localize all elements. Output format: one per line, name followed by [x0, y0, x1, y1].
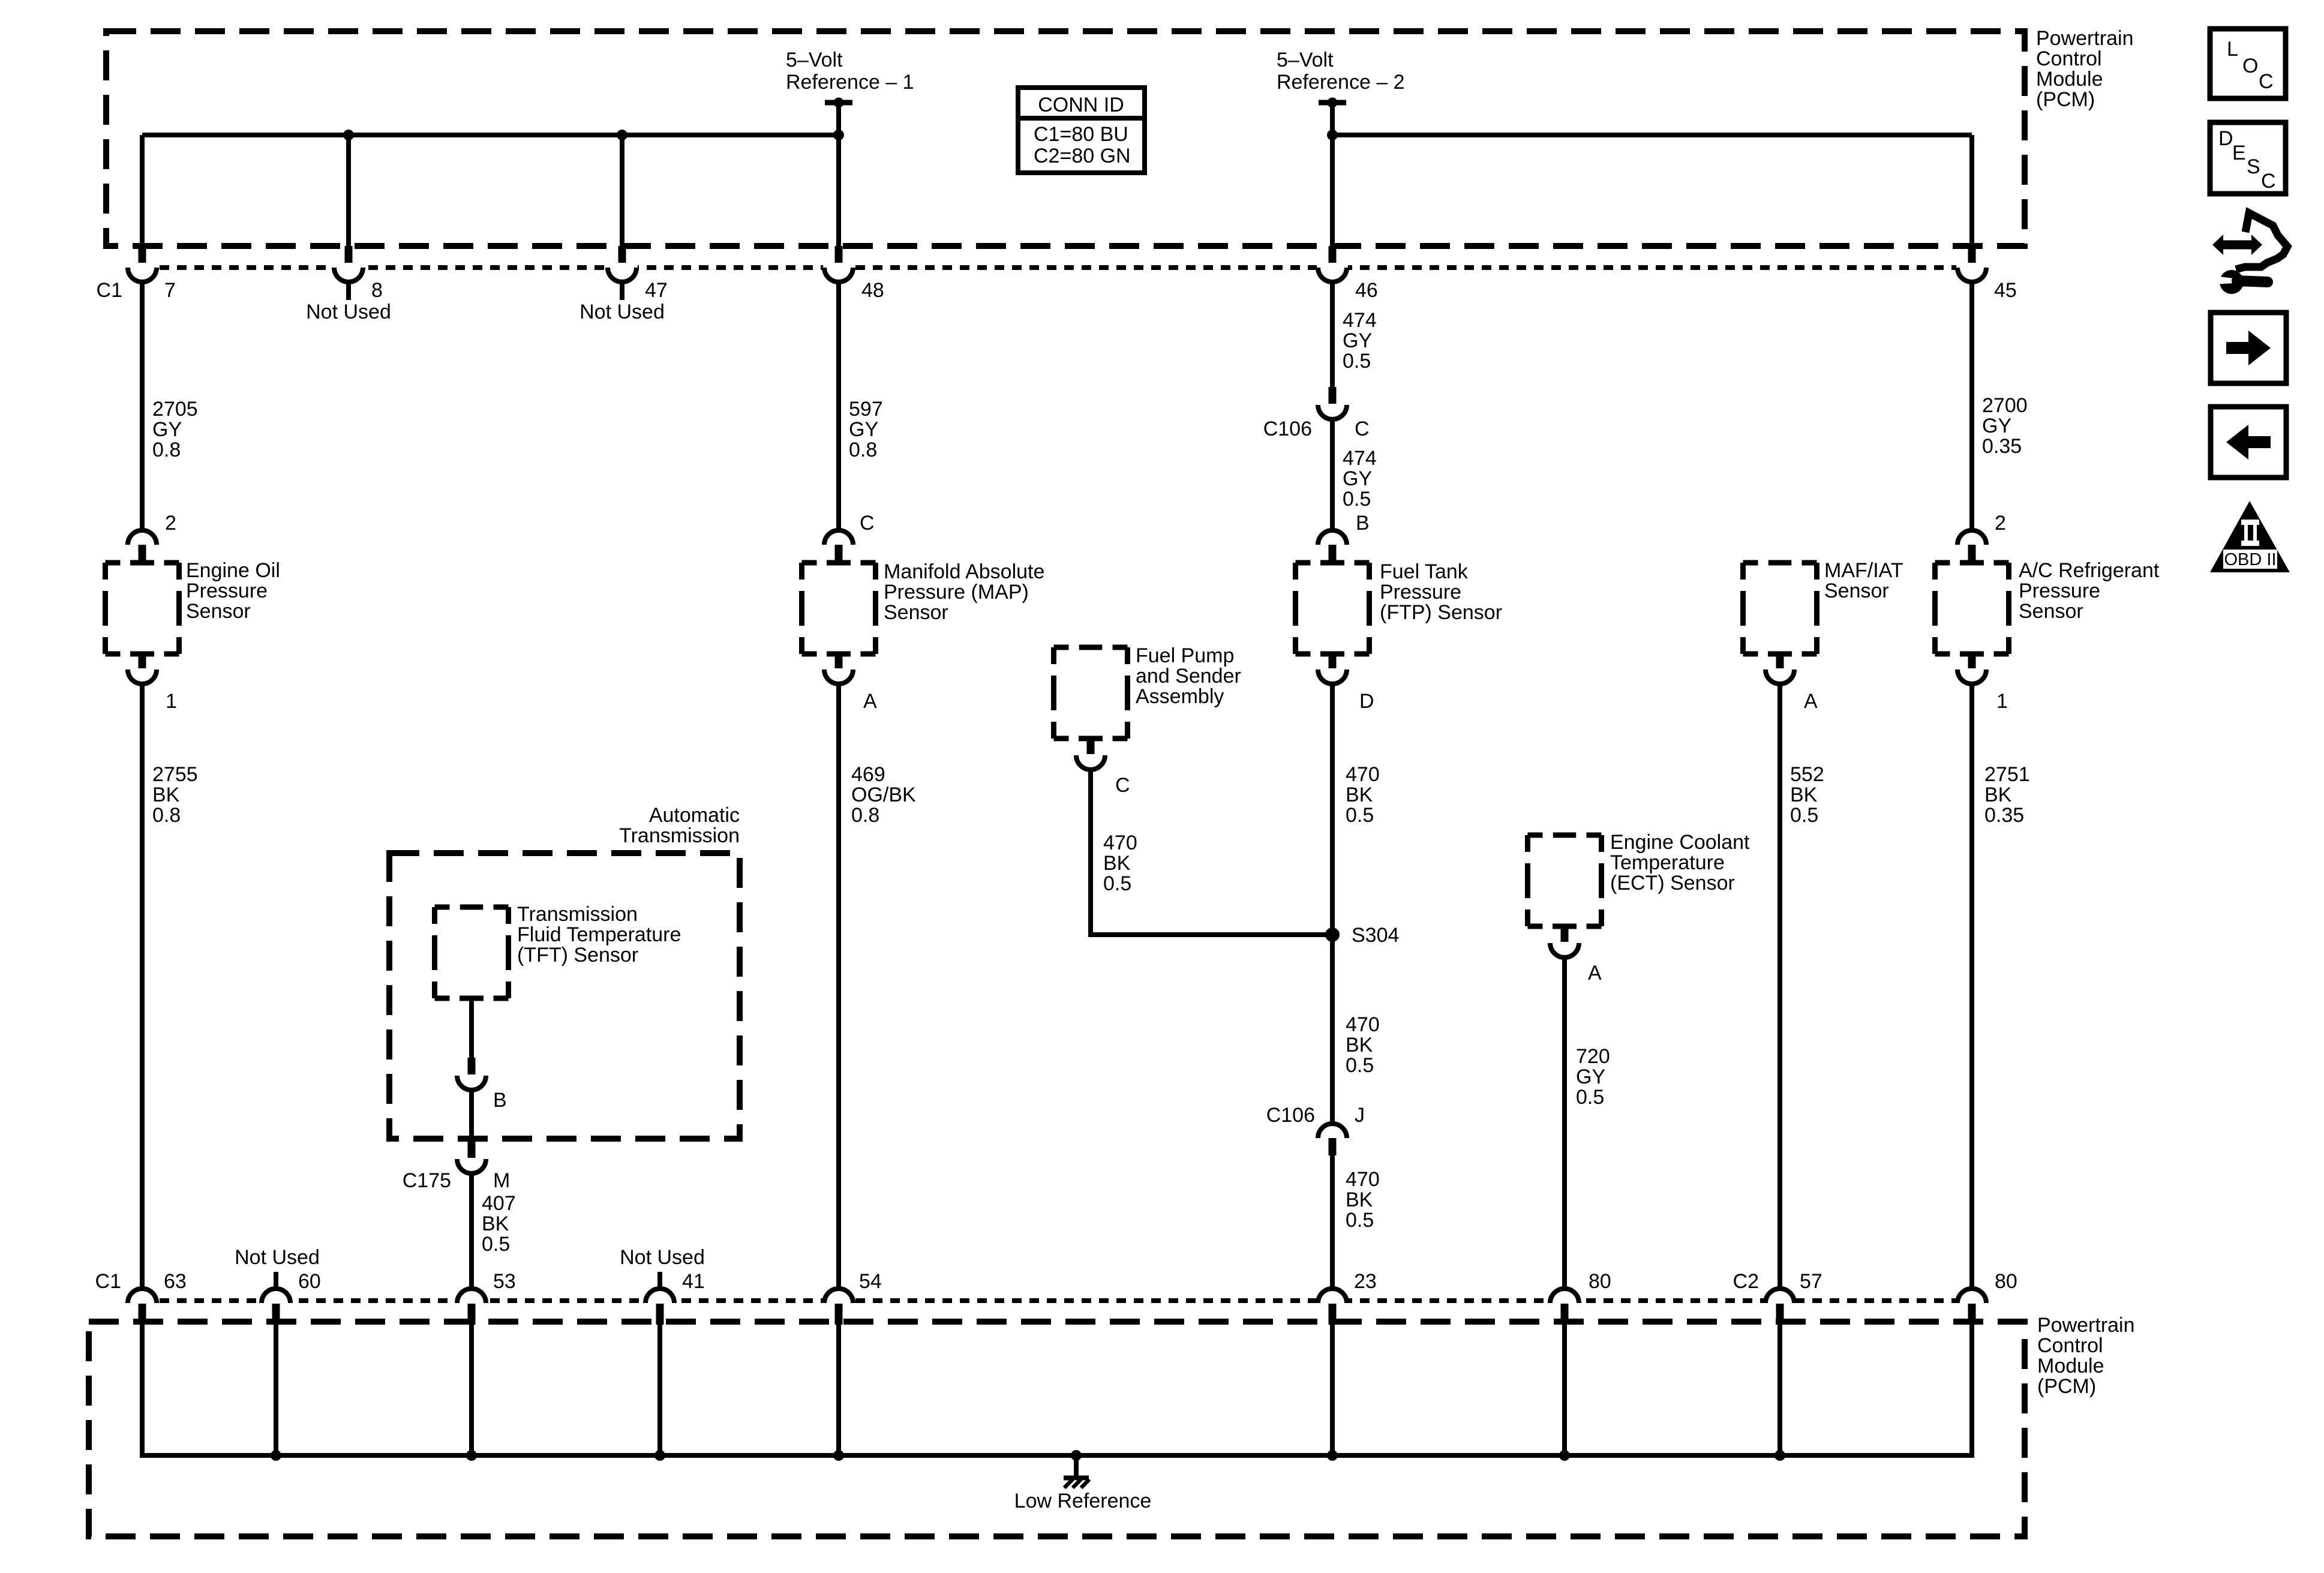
- connector C2 pin 45 (PCM): [1956, 246, 1987, 283]
- wire 470 BK 0.5 (C106 J to pin 23): [1330, 1155, 1335, 1289]
- svg-text:Control: Control: [2037, 1334, 2103, 1357]
- svg-text:0.5: 0.5: [1576, 1086, 1604, 1109]
- svg-text:7: 7: [164, 279, 176, 302]
- wire pin 47 stub (PCM internal): [620, 135, 624, 246]
- svg-text:Sensor: Sensor: [1824, 580, 1889, 602]
- svg-text:C: C: [2261, 170, 2276, 193]
- wire TFT B to C175: [469, 998, 474, 1141]
- svg-text:C106: C106: [1263, 418, 1312, 440]
- svg-text:Transmission: Transmission: [517, 903, 638, 926]
- svg-text:BK: BK: [1984, 784, 2012, 806]
- connector pin C Fuel Pump and Sender Assembly: [1075, 737, 1106, 771]
- connector pin A MAP Sensor: [823, 652, 854, 685]
- svg-text:23: 23: [1354, 1270, 1377, 1293]
- svg-text:0.8: 0.8: [152, 439, 181, 461]
- Fuel Tank Pressure (FTP) Sensor box: [1296, 563, 1370, 654]
- svg-text:2755: 2755: [152, 763, 198, 786]
- svg-text:48: 48: [861, 279, 884, 302]
- wire 469 OG/BK 0.8 (MAP A to pin 54): [836, 684, 841, 1289]
- svg-text:2: 2: [1995, 512, 2006, 535]
- svg-text:2705: 2705: [152, 398, 198, 421]
- svg-text:720: 720: [1576, 1045, 1610, 1068]
- connector pin B TFT Sensor: [456, 1058, 487, 1091]
- connector C1 pin 63 (PCM): [127, 1287, 158, 1325]
- svg-text:BK: BK: [1103, 852, 1131, 875]
- junction dot ground stub: [1071, 1450, 1082, 1461]
- wire 5V ref 1 to pin 48: [836, 103, 841, 246]
- svg-text:2: 2: [165, 512, 176, 535]
- ground (Low Reference chassis ground): [1064, 1478, 1089, 1488]
- label wire 552 BK 0.5: [1790, 763, 1824, 827]
- svg-text:BK: BK: [1346, 1188, 1373, 1211]
- svg-text:Temperature: Temperature: [1610, 851, 1725, 874]
- wire pin 8 stub (PCM internal): [346, 135, 351, 246]
- connector C1 pin 23 (PCM): [1317, 1287, 1348, 1325]
- svg-text:O: O: [2242, 55, 2258, 77]
- svg-text:(PCM): (PCM): [2037, 1375, 2096, 1398]
- svg-text:C175: C175: [403, 1169, 451, 1192]
- 5-Volt Reference-2 supply symbol: [1319, 98, 1346, 108]
- svg-text:GY: GY: [1982, 415, 2011, 437]
- svg-text:J: J: [1355, 1104, 1365, 1127]
- svg-text:CONN ID: CONN ID: [1038, 94, 1124, 116]
- label wire 720 GY 0.5: [1576, 1045, 1610, 1109]
- label 5-Volt Reference - 1: [786, 49, 914, 94]
- wire 5V ref 2 to pin 46: [1330, 103, 1335, 246]
- label wire 470 BK 0.5 fuel pump: [1103, 831, 1137, 895]
- svg-text:BK: BK: [1346, 784, 1373, 806]
- svg-text:BK: BK: [152, 784, 180, 806]
- wire 407 BK 0.5 (C175 M to pin 53): [469, 1173, 474, 1289]
- svg-text:470: 470: [1346, 763, 1380, 786]
- wire 720 GY 0.5 (ECT A to pin 80): [1562, 957, 1567, 1289]
- svg-text:470: 470: [1346, 1013, 1380, 1036]
- svg-text:469: 469: [851, 763, 885, 786]
- svg-text:Powertrain: Powertrain: [2036, 27, 2134, 50]
- connector pin A MAF/IAT Sensor: [1764, 652, 1795, 685]
- connector C2 pin 80 (PCM): [1956, 1287, 1987, 1325]
- svg-text:0.8: 0.8: [849, 439, 877, 461]
- label wire 407 BK 0.5: [482, 1192, 516, 1256]
- svg-text:54: 54: [859, 1270, 882, 1293]
- svg-text:A: A: [863, 690, 877, 713]
- svg-text:Module: Module: [2036, 68, 2103, 91]
- svg-text:0.8: 0.8: [851, 804, 879, 827]
- svg-text:(TFT) Sensor: (TFT) Sensor: [517, 944, 638, 966]
- svg-text:D: D: [2218, 127, 2233, 150]
- svg-text:OBD II: OBD II: [2224, 550, 2276, 569]
- Fuel Pump and Sender Assembly box: [1054, 647, 1128, 739]
- svg-text:Engine Oil: Engine Oil: [186, 559, 280, 582]
- Engine Oil Pressure Sensor box: [106, 563, 179, 654]
- svg-text:0.5: 0.5: [1790, 804, 1818, 827]
- connector pin C MAP Sensor: [823, 529, 854, 562]
- svg-text:D: D: [1359, 690, 1374, 713]
- svg-text:57: 57: [1800, 1270, 1822, 1293]
- svg-text:0.5: 0.5: [1343, 350, 1371, 373]
- svg-text:(ECT) Sensor: (ECT) Sensor: [1610, 872, 1735, 894]
- svg-text:0.5: 0.5: [482, 1233, 510, 1256]
- tab pin 2 A/C box: [1960, 560, 1984, 566]
- svg-text:0.35: 0.35: [1984, 804, 2024, 827]
- Transmission Fluid Temperature (TFT) Sensor box: [435, 907, 509, 998]
- tab pin 1 Engine Oil box: [130, 652, 154, 657]
- tab pin 1 A/C box: [1960, 652, 1984, 657]
- svg-text:0.5: 0.5: [1346, 804, 1374, 827]
- wire pin 47 not used stub: [620, 281, 624, 300]
- label wire 597 GY 0.8: [849, 398, 883, 461]
- svg-text:8: 8: [371, 279, 383, 302]
- PCM C1/C2 top connector row (dotted): [142, 265, 1972, 270]
- connector pin 2 Engine Oil Pressure Sensor: [127, 529, 158, 562]
- svg-text:GY: GY: [849, 418, 878, 441]
- connector pin 1 A/C Refrigerant Pressure Sensor: [1956, 652, 1987, 685]
- svg-text:C: C: [2259, 70, 2274, 93]
- label Automatic Transmission: [619, 804, 740, 847]
- svg-text:C2=80 GN: C2=80 GN: [1034, 145, 1131, 167]
- svg-text:46: 46: [1355, 279, 1378, 302]
- junction dot pin 80 low ref bus: [1559, 1450, 1570, 1461]
- OBD II legend icon: [2210, 501, 2290, 572]
- A/C Refrigerant Pressure Sensor box: [1935, 563, 2009, 654]
- svg-text:5–Volt: 5–Volt: [1277, 49, 1334, 71]
- forward arrow legend icon: [2211, 313, 2286, 383]
- Engine Coolant Temperature (ECT) Sensor box: [1528, 835, 1602, 926]
- tab pin B TFT box: [460, 996, 484, 1001]
- svg-text:474: 474: [1343, 447, 1377, 470]
- label wire 2705 GY 0.8: [152, 398, 198, 461]
- svg-text:Assembly: Assembly: [1136, 685, 1224, 708]
- svg-text:S304: S304: [1352, 924, 1399, 947]
- svg-text:53: 53: [493, 1270, 516, 1293]
- svg-text:GY: GY: [1343, 329, 1372, 352]
- svg-text:Not Used: Not Used: [235, 1246, 320, 1269]
- svg-text:Low Reference: Low Reference: [1014, 1490, 1152, 1512]
- svg-text:C: C: [860, 512, 875, 535]
- svg-text:Reference – 1: Reference – 1: [786, 71, 914, 94]
- svg-text:Pressure: Pressure: [186, 580, 268, 602]
- svg-text:80: 80: [1589, 1270, 1611, 1293]
- connector C106 pin C: [1317, 387, 1348, 421]
- wire 470 BK 0.5 (Fuel Pump C to S304): [1091, 770, 1332, 935]
- tab pin C Fuel Pump box: [1079, 736, 1103, 742]
- svg-text:C: C: [1355, 418, 1370, 440]
- svg-text:B: B: [1356, 512, 1370, 535]
- tab pin C MAP box: [827, 560, 851, 566]
- label ECT Sensor: [1610, 831, 1750, 894]
- junction dot 5V ref 2 bus: [1327, 130, 1338, 140]
- svg-text:A: A: [1588, 962, 1602, 984]
- wire 2751 BK 0.35 (A/C 1 to pin 80): [1969, 684, 1974, 1289]
- svg-text:BK: BK: [1346, 1034, 1373, 1056]
- svg-text:C1=80 BU: C1=80 BU: [1034, 123, 1128, 146]
- svg-text:Transmission: Transmission: [619, 824, 740, 847]
- svg-text:45: 45: [1994, 279, 2017, 302]
- svg-text:and Sender: and Sender: [1136, 665, 1241, 688]
- CONN ID table: [1018, 88, 1145, 173]
- svg-text:GY: GY: [1576, 1065, 1605, 1088]
- wire pin 8 not used stub: [346, 281, 351, 300]
- connector C1 pin 48 (PCM): [823, 246, 854, 283]
- label MAP Sensor: [884, 560, 1044, 624]
- 5-Volt Reference-1 supply symbol: [825, 98, 852, 108]
- svg-text:Reference – 2: Reference – 2: [1277, 71, 1405, 94]
- PCM C1/C2 bottom connector row (dotted): [142, 1298, 1972, 1303]
- svg-text:GY: GY: [152, 418, 182, 441]
- PCM top box (Powertrain Control Module): [106, 31, 2025, 246]
- svg-text:Not Used: Not Used: [306, 301, 391, 323]
- svg-text:470: 470: [1346, 1168, 1380, 1191]
- label Fuel Pump and Sender Assembly: [1136, 644, 1241, 708]
- connector C1 pin 8 Not Used (PCM): [333, 246, 364, 283]
- svg-text:Pressure: Pressure: [1380, 581, 1461, 604]
- svg-text:0.5: 0.5: [1343, 488, 1371, 511]
- wire 474 GY 0.5 (pin 46 to C106 C): [1330, 281, 1335, 387]
- connector C1 pin 53 (PCM): [456, 1287, 487, 1325]
- junction dot pin 57 low ref bus: [1774, 1450, 1785, 1461]
- connector C1 pin 60 Not Used (PCM): [260, 1287, 292, 1325]
- svg-text:BK: BK: [482, 1212, 509, 1235]
- svg-text:Control: Control: [2036, 47, 2102, 70]
- svg-text:2700: 2700: [1982, 394, 2028, 417]
- svg-text:E: E: [2232, 142, 2246, 164]
- svg-text:MAF/IAT: MAF/IAT: [1824, 559, 1903, 582]
- svg-text:Fluid Temperature: Fluid Temperature: [517, 923, 681, 946]
- label PCM top: [2036, 27, 2134, 111]
- tab pin A MAP box: [827, 652, 851, 657]
- svg-text:407: 407: [482, 1192, 516, 1215]
- svg-text:41: 41: [682, 1270, 705, 1293]
- svg-text:0.5: 0.5: [1346, 1209, 1374, 1232]
- svg-text:0.8: 0.8: [152, 804, 181, 827]
- svg-text:GY: GY: [1343, 467, 1372, 490]
- MAF/IAT Sensor box: [1743, 563, 1817, 654]
- svg-text:(PCM): (PCM): [2036, 88, 2095, 111]
- junction dot pin 8 bus: [343, 130, 354, 140]
- wire 470 BK 0.5 (FTP D to S304): [1330, 684, 1335, 935]
- wire 2700 GY 0.35 (pin 45 to A/C 2): [1969, 281, 1974, 530]
- label wire 470 BK 0.5 S304-C106J: [1346, 1013, 1380, 1077]
- service/wrench legend icon: [2212, 213, 2287, 294]
- tab pin 2 Engine Oil box: [130, 560, 154, 566]
- connector pin 2 A/C Refrigerant Pressure Sensor: [1956, 529, 1987, 562]
- connector C106 pin J: [1317, 1122, 1348, 1155]
- svg-text:C2: C2: [1733, 1270, 1759, 1293]
- wire 474 GY 0.5 (C106 C to FTP B): [1330, 419, 1335, 530]
- svg-text:470: 470: [1103, 831, 1137, 854]
- svg-text:Fuel Pump: Fuel Pump: [1136, 644, 1234, 667]
- svg-text:80: 80: [1995, 1270, 2017, 1293]
- junction dot pin 53 low ref bus: [466, 1450, 477, 1461]
- junction dot pin 23 low ref bus: [1327, 1450, 1338, 1461]
- connector C2 pin 57 (PCM): [1764, 1287, 1795, 1325]
- svg-text:552: 552: [1790, 763, 1824, 786]
- svg-text:0.35: 0.35: [1982, 435, 2022, 458]
- label wire 470 BK 0.5 C106J-23: [1346, 1168, 1380, 1232]
- svg-text:C: C: [1115, 774, 1130, 797]
- connector C1 pin 7 (PCM): [127, 246, 158, 283]
- connector pin A ECT Sensor: [1549, 925, 1580, 959]
- connector pin D FTP Sensor: [1317, 652, 1348, 685]
- label wire 2700 GY 0.35: [1982, 394, 2028, 458]
- svg-text:60: 60: [298, 1270, 321, 1293]
- connector C2 pin 46 (PCM): [1317, 246, 1348, 283]
- tab pin D FTP box: [1320, 652, 1344, 657]
- svg-text:2751: 2751: [1984, 763, 2030, 786]
- LOC legend icon: [2210, 29, 2286, 98]
- label FTP Sensor: [1380, 560, 1502, 624]
- svg-text:C1: C1: [97, 279, 122, 302]
- junction dot pin 54 low ref bus: [833, 1450, 844, 1461]
- connector pin B FTP Sensor: [1317, 529, 1348, 562]
- connector C1 pin 41 Not Used (PCM): [644, 1287, 675, 1325]
- label wire 470 BK 0.5 FTP: [1346, 763, 1380, 827]
- svg-text:Not Used: Not Used: [580, 301, 665, 323]
- svg-text:47: 47: [645, 279, 668, 302]
- svg-text:63: 63: [164, 1270, 187, 1293]
- junction dot pin 60 low ref bus: [271, 1450, 281, 1461]
- svg-text:C1: C1: [95, 1270, 121, 1293]
- svg-text:B: B: [493, 1089, 507, 1112]
- label wire 469 OG/BK 0.8: [851, 763, 916, 827]
- svg-text:0.5: 0.5: [1346, 1054, 1374, 1077]
- tab pin A MAF box: [1768, 652, 1792, 657]
- svg-text:474: 474: [1343, 309, 1377, 332]
- label 5-Volt Reference - 2: [1277, 49, 1405, 94]
- connector C175 pin M: [456, 1141, 487, 1175]
- connector C1 pin 54 (PCM): [823, 1287, 854, 1325]
- svg-text:Sensor: Sensor: [884, 601, 948, 624]
- svg-text:Module: Module: [2037, 1355, 2104, 1377]
- Manifold Absolute Pressure (MAP) Sensor box: [802, 563, 876, 654]
- label Engine Oil Pressure Sensor: [186, 559, 280, 623]
- svg-text:Fuel Tank: Fuel Tank: [1380, 560, 1469, 583]
- svg-text:Manifold Absolute: Manifold Absolute: [884, 560, 1044, 583]
- svg-text:5–Volt: 5–Volt: [786, 49, 843, 71]
- 5-Volt Reference-2 bus wire: [1332, 135, 1972, 246]
- label A/C Refrigerant Pressure Sensor: [2019, 559, 2160, 623]
- connector pin 1 Engine Oil Pressure Sensor: [127, 652, 158, 685]
- svg-text:Pressure (MAP): Pressure (MAP): [884, 581, 1029, 604]
- Low Reference bus wire (bottom PCM internal): [142, 1325, 1972, 1455]
- junction dot pin 47 bus: [617, 130, 627, 140]
- wire pin 60 not used stub: [274, 1272, 278, 1289]
- splice S304: [1325, 927, 1340, 942]
- wire 470 BK 0.5 (S304 to C106 J): [1330, 935, 1335, 1124]
- label wire 2755 BK 0.8: [152, 763, 198, 827]
- svg-text:Not Used: Not Used: [620, 1246, 705, 1269]
- wire pin 41 not used stub: [657, 1272, 662, 1289]
- svg-text:Powertrain: Powertrain: [2037, 1314, 2135, 1337]
- junction dot 5V ref 1 bus: [833, 130, 844, 140]
- svg-text:OG/BK: OG/BK: [851, 784, 916, 806]
- svg-text:S: S: [2247, 155, 2260, 178]
- svg-text:Sensor: Sensor: [186, 600, 251, 623]
- svg-text:BK: BK: [1790, 784, 1818, 806]
- label MAF/IAT Sensor: [1824, 559, 1903, 602]
- connector C1 pin 47 Not Used (PCM): [606, 246, 638, 283]
- svg-text:(FTP) Sensor: (FTP) Sensor: [1380, 601, 1502, 624]
- svg-text:1: 1: [1996, 690, 2008, 713]
- svg-text:A: A: [1804, 690, 1818, 713]
- label wire 2751 BK 0.35: [1984, 763, 2030, 827]
- svg-text:1: 1: [166, 690, 177, 713]
- svg-text:Engine Coolant: Engine Coolant: [1610, 831, 1750, 854]
- DESC legend icon: [2210, 122, 2286, 194]
- svg-text:Pressure: Pressure: [2019, 580, 2100, 602]
- svg-text:597: 597: [849, 398, 883, 421]
- label TFT Sensor: [517, 903, 681, 966]
- tab pin A ECT box: [1553, 924, 1577, 929]
- label wire 474 GY 0.5 upper: [1343, 309, 1377, 373]
- svg-text:L: L: [2227, 38, 2238, 61]
- wire 552 BK 0.5 (MAF A to pin 57): [1777, 684, 1782, 1289]
- svg-text:0.5: 0.5: [1103, 872, 1131, 895]
- svg-text:M: M: [493, 1169, 510, 1192]
- label wire 474 GY 0.5 lower: [1343, 447, 1377, 511]
- back arrow legend icon: [2211, 407, 2286, 478]
- svg-text:Sensor: Sensor: [2019, 600, 2083, 623]
- tab pin B FTP box: [1320, 560, 1344, 566]
- wire ground stub: [1074, 1455, 1079, 1477]
- svg-text:A/C Refrigerant: A/C Refrigerant: [2019, 559, 2160, 582]
- junction dot pin 41 low ref bus: [654, 1450, 665, 1461]
- PCM bottom box (Powertrain Control Module): [89, 1322, 2025, 1536]
- label PCM bottom: [2037, 1314, 2135, 1398]
- 5-Volt Reference-1 bus wire: [142, 135, 839, 246]
- wire pin 7 not-used stub below connector: [140, 281, 145, 530]
- wire 597 GY 0.8 (pin 48 to MAP C): [836, 281, 841, 530]
- connector C1 pin 80 (PCM): [1549, 1287, 1580, 1325]
- svg-text:C106: C106: [1266, 1104, 1315, 1127]
- svg-text:Automatic: Automatic: [649, 804, 740, 827]
- wire 2755 BK 0.8 (Engine Oil 1 to pin 63): [140, 684, 145, 1289]
- Automatic Transmission box: [389, 853, 740, 1139]
